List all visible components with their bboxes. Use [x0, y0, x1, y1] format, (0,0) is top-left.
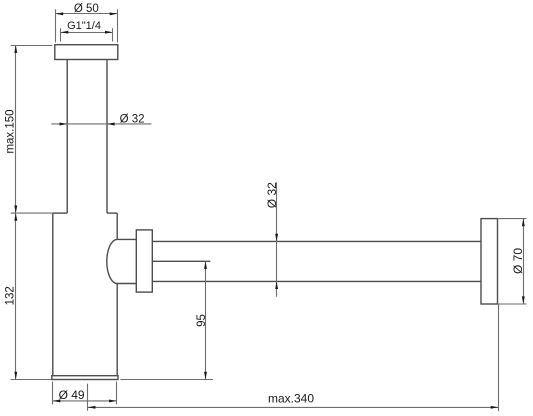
- svg-text:Ø 50: Ø 50: [74, 3, 99, 15]
- svg-text:Ø 32: Ø 32: [265, 182, 279, 208]
- svg-text:Ø 49: Ø 49: [59, 388, 85, 402]
- svg-text:max.150: max.150: [5, 109, 17, 153]
- svg-text:132: 132: [4, 286, 16, 305]
- svg-text:G1"1/4: G1"1/4: [67, 20, 101, 32]
- svg-text:95: 95: [196, 314, 208, 327]
- svg-text:Ø 32: Ø 32: [120, 113, 145, 125]
- svg-text:Ø 70: Ø 70: [511, 248, 525, 274]
- svg-text:max.340: max.340: [268, 391, 314, 405]
